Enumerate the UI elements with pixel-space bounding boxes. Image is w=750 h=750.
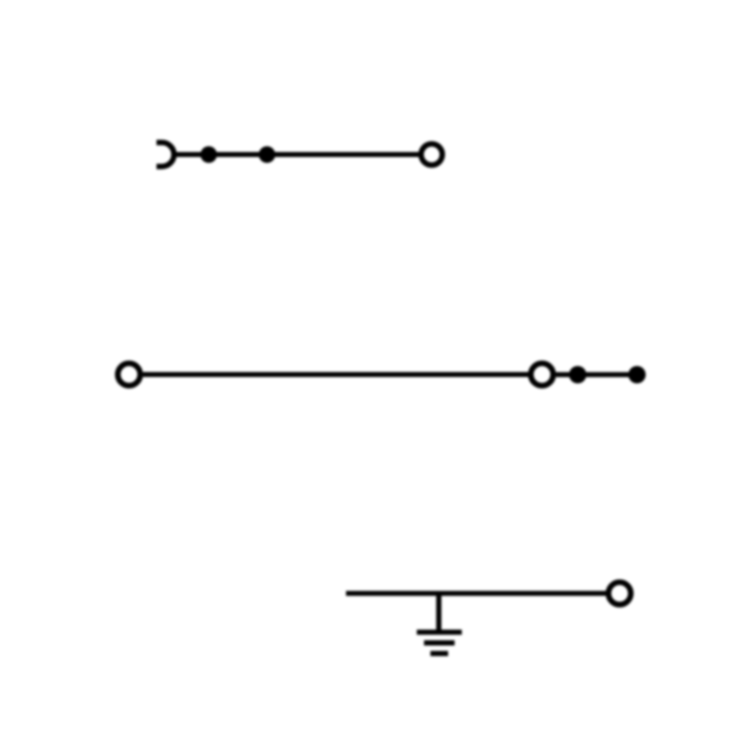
ground (earth) symbol [417, 593, 462, 653]
wire level-2 stub to clamp [556, 372, 637, 377]
wire level-1 conductor bar [175, 152, 419, 157]
junction dot level-1 B [259, 146, 276, 163]
terminal circle level-2 right [531, 363, 553, 385]
wire level-3 conductor bar [346, 591, 606, 596]
terminal circle level-2 left [118, 363, 140, 385]
level 1: socket contact (female connector) [157, 143, 175, 167]
terminal circle level-3 right [608, 582, 630, 604]
junction dot level-2 B (end) [628, 366, 645, 383]
junction dot level-1 A [200, 146, 217, 163]
wire level-2 conductor bar [143, 372, 529, 377]
junction dot level-2 A [569, 366, 586, 383]
terminal circle level-1 right [421, 144, 442, 165]
